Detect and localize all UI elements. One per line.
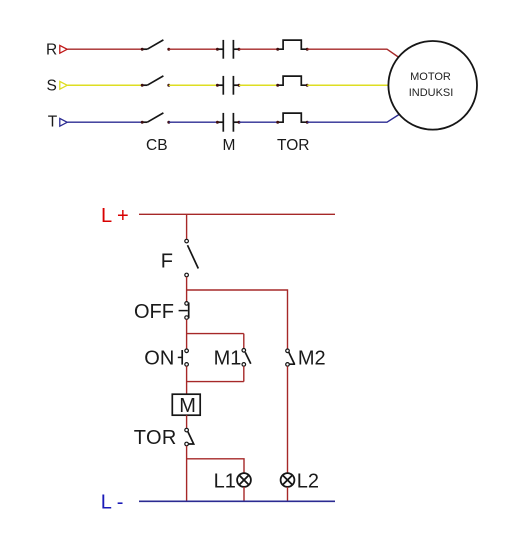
- svg-text:TOR: TOR: [277, 137, 309, 154]
- wire L1 to L-: [243, 487, 245, 501]
- overload TOR pole S: [278, 76, 308, 85]
- lamp L2: [281, 473, 295, 487]
- net L+ rail: [139, 213, 335, 215]
- svg-text:MOTOR: MOTOR: [410, 71, 451, 83]
- contact M2 (NC): [286, 349, 295, 366]
- wire T1: [68, 121, 143, 123]
- svg-text:ON: ON: [144, 348, 174, 370]
- net L- rail: [139, 500, 335, 502]
- wire OFF to ON: [186, 319, 188, 349]
- svg-text:M2: M2: [298, 347, 326, 369]
- svg-text:L -: L -: [101, 491, 124, 513]
- wire R3: [239, 48, 278, 50]
- wire M1 branch upper: [243, 334, 245, 349]
- svg-text:CB: CB: [146, 137, 168, 154]
- svg-text:M1: M1: [214, 347, 242, 369]
- breaker CB pole S: [142, 76, 163, 85]
- wire rail bottom of ON/M1 loop: [187, 381, 244, 383]
- node M-T right: [238, 121, 241, 124]
- node TOR-T left: [276, 121, 279, 124]
- node CB-S left: [141, 84, 144, 87]
- wire T4 to motor: [307, 114, 400, 122]
- wire F to OFF: [186, 277, 188, 302]
- node M-T left: [216, 121, 219, 124]
- wire T2: [169, 121, 218, 123]
- svg-text:OFF: OFF: [134, 301, 174, 323]
- node M-S left: [216, 84, 219, 87]
- svg-text:S: S: [47, 77, 57, 94]
- breaker CB pole R: [142, 40, 163, 49]
- svg-text:M: M: [223, 137, 236, 154]
- node TOR-S right: [306, 84, 309, 87]
- fuse-switch F: [185, 239, 199, 277]
- motor U1 circle: [388, 41, 477, 130]
- contactor M pole R: [217, 40, 239, 59]
- svg-text:M: M: [179, 395, 196, 417]
- node M-S right: [238, 84, 241, 87]
- node M-R left: [216, 48, 219, 51]
- node TOR-R left: [276, 48, 279, 51]
- wire R4 to motor: [307, 49, 399, 57]
- node CB-T left: [141, 121, 144, 124]
- wire branch to L1: [187, 459, 244, 473]
- wire branch to M2: [187, 290, 288, 349]
- contactor M pole T: [217, 113, 239, 132]
- svg-text:F: F: [161, 251, 173, 273]
- wire ON to loop bottom: [186, 366, 188, 394]
- phase T source arrow: [60, 118, 67, 126]
- node TOR-S left: [276, 84, 279, 87]
- wire S1: [68, 84, 143, 86]
- node TOR-T right: [306, 121, 309, 124]
- overload TOR pole T: [278, 113, 308, 122]
- wire TOR to L-: [186, 446, 188, 502]
- wire L2 to L-: [287, 487, 289, 501]
- wire coil to TOR: [186, 415, 188, 428]
- contactor M pole S: [217, 76, 239, 95]
- wire S3: [239, 84, 278, 86]
- node CB-R left: [141, 48, 144, 51]
- wire R1: [68, 48, 143, 50]
- phase R source arrow: [60, 45, 67, 53]
- node CB-S right: [167, 84, 170, 87]
- wire T3: [239, 121, 278, 123]
- node TOR-R right: [306, 48, 309, 51]
- node CB-T right: [167, 121, 170, 124]
- contact M1 (NO): [242, 349, 251, 367]
- svg-text:L1: L1: [214, 471, 236, 493]
- breaker CB pole T: [142, 113, 163, 122]
- contact TOR (NC): [185, 428, 194, 446]
- wire S2: [169, 84, 218, 86]
- svg-text:R: R: [46, 41, 57, 58]
- wire M1 branch lower: [243, 366, 245, 381]
- svg-text:L2: L2: [297, 471, 319, 493]
- svg-text:TOR: TOR: [134, 427, 177, 449]
- motor U1 label: [409, 71, 454, 99]
- svg-text:T: T: [48, 113, 58, 130]
- svg-text:INDUKSI: INDUKSI: [409, 87, 454, 99]
- svg-text:L +: L +: [101, 205, 129, 227]
- pushbutton OFF (NC): [179, 302, 189, 320]
- lamp L1: [237, 473, 251, 487]
- wire R2: [169, 48, 218, 50]
- node M-R right: [238, 48, 241, 51]
- node CB-R right: [167, 48, 170, 51]
- coil M box: [172, 394, 200, 415]
- wire L+ to F: [186, 214, 188, 239]
- pushbutton ON (NO): [178, 349, 189, 366]
- wire rail top of ON/M1 loop: [187, 333, 244, 335]
- wire M2 to L2: [287, 366, 289, 473]
- wire S4 to motor: [307, 84, 388, 86]
- overload TOR pole R: [278, 40, 308, 49]
- phase S source arrow: [60, 81, 67, 89]
